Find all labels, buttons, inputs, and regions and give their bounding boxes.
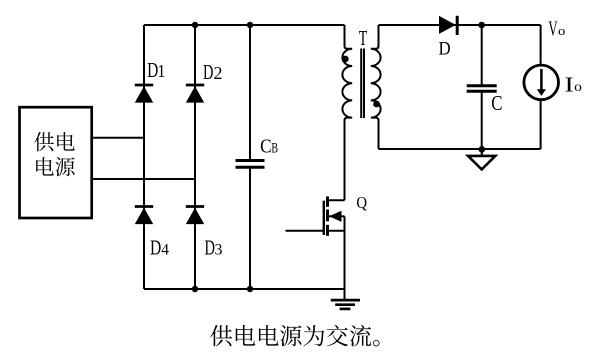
current source Io circle: [524, 65, 559, 100]
ground secondary (open triangle): [468, 149, 495, 169]
diode D4: [135, 207, 153, 225]
node junction top rail at C branch: [478, 22, 485, 29]
label T: [359, 26, 367, 50]
svg-text:o: o: [558, 24, 566, 38]
transistor Q body arrow: [329, 211, 345, 222]
svg-text:4: 4: [161, 242, 169, 259]
diode D (output rectifier): [439, 16, 457, 35]
svg-text:C: C: [260, 135, 271, 158]
label C: [491, 92, 502, 115]
transformer T primary phase dot: [342, 56, 349, 63]
wire CB branch lower: [249, 167, 251, 289]
svg-text:o: o: [574, 80, 582, 95]
supply box text 电源: [36, 157, 75, 176]
caption 供电电源为交流。: [210, 325, 379, 347]
capacitor CB plate top: [236, 159, 265, 162]
svg-text:C: C: [491, 92, 502, 115]
transformer T primary winding and wire: [342, 25, 352, 200]
ground primary stub: [344, 289, 346, 299]
capacitor C plate top: [467, 84, 497, 87]
svg-text:V: V: [548, 17, 558, 40]
label Vo: [548, 17, 565, 40]
svg-text:D: D: [204, 236, 214, 259]
wire secondary bottom rail: [379, 148, 541, 150]
wire top rail (+DC bus): [144, 24, 345, 26]
wire output right vertical lower: [540, 100, 542, 150]
transistor Q gate plate: [323, 201, 325, 235]
wire bridge left branch (D1/D4): [143, 25, 145, 289]
capacitor C plate bottom: [467, 90, 497, 93]
svg-text:Q: Q: [356, 194, 367, 212]
ground primary bar 3: [340, 308, 351, 311]
node junction top rail at CB branch: [247, 22, 253, 28]
current source Io arrow: [537, 69, 546, 96]
transformer T secondary winding and wire: [371, 25, 381, 149]
svg-text:3: 3: [215, 242, 223, 259]
svg-text:D: D: [203, 60, 213, 83]
label D1: [147, 59, 165, 83]
transistor Q drain horizontal: [328, 199, 345, 201]
wire box to bridge upper (AC1): [91, 137, 144, 139]
svg-text:D: D: [150, 236, 161, 259]
svg-text:2: 2: [214, 63, 223, 83]
supply box (供电电源): [20, 107, 92, 218]
transformer T core line right: [363, 49, 365, 119]
wire bottom rail (-DC bus): [144, 288, 345, 290]
transformer T secondary phase dot: [373, 101, 380, 108]
ground primary bar 2: [335, 303, 355, 306]
label D: [439, 38, 451, 59]
svg-text:D: D: [439, 38, 451, 59]
label D4: [150, 236, 169, 259]
transistor Q source/drain vertical to rail: [344, 216, 346, 289]
diode D2: [186, 85, 204, 103]
diode D1: [135, 85, 153, 103]
label D2: [203, 60, 223, 83]
wire CB branch upper: [249, 25, 251, 161]
transformer T core line left: [360, 49, 362, 119]
node junction bottom rail at ground: [479, 146, 486, 153]
supply box text 供电: [34, 132, 75, 151]
label CB: [260, 135, 278, 158]
transistor Q gate wire: [286, 230, 324, 232]
wire box to bridge lower (AC2): [91, 178, 195, 180]
wire output right vertical upper: [540, 25, 542, 65]
wire C branch upper: [481, 25, 483, 86]
node junction bottom rail at D3 branch: [192, 286, 198, 292]
transistor Q channel bar top: [326, 196, 329, 206]
diode D3: [186, 207, 204, 225]
node junction bottom rail at CB branch: [247, 286, 253, 292]
wire C branch lower: [481, 91, 483, 149]
svg-text:1: 1: [157, 61, 165, 81]
label D3: [204, 236, 222, 259]
svg-text:B: B: [271, 140, 278, 156]
wire secondary top rail: [379, 24, 541, 26]
wire bridge right branch (D2/D3): [194, 25, 196, 289]
capacitor CB plate bottom: [236, 166, 265, 169]
transistor Q source horizontal: [328, 230, 345, 232]
transistor Q channel bar middle: [326, 210, 329, 222]
svg-text:I: I: [564, 73, 573, 96]
ground primary bar 1: [331, 299, 360, 302]
label Q: [356, 194, 367, 212]
transistor Q channel bar bottom: [326, 225, 329, 236]
svg-text:T: T: [359, 26, 367, 50]
node junction top rail at D2 branch: [192, 22, 198, 28]
label Io: [564, 73, 581, 96]
